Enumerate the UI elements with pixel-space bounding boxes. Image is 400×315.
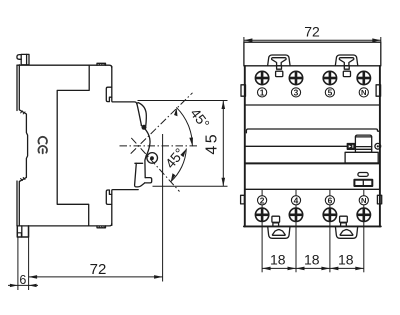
svg-text:18: 18 <box>304 252 320 268</box>
arc arrowheads <box>171 108 193 182</box>
clip B square <box>343 71 350 76</box>
18-dim extension lines <box>262 190 364 272</box>
lower right vertical <box>112 190 138 226</box>
face middle line <box>245 145 347 147</box>
terminal screws + numbers (drawn last for white fill over ext lines) <box>255 71 370 221</box>
bottom clip B <box>335 226 357 238</box>
top busbar clip B <box>335 55 358 66</box>
extension line top <box>138 100 228 102</box>
main body outline <box>244 66 246 227</box>
svg-text:72: 72 <box>90 261 107 278</box>
screw 4 <box>289 208 302 221</box>
screw 8 <box>357 208 370 221</box>
svg-text:1: 1 <box>260 87 265 97</box>
top DIN-clip tab <box>17 54 29 64</box>
svg-text:N: N <box>361 196 366 205</box>
number 2 <box>258 195 267 205</box>
dimension line 45 <box>222 101 224 187</box>
horizontal centerline <box>120 145 198 147</box>
top busbar clip A <box>268 55 291 66</box>
svg-text:4: 4 <box>294 195 299 205</box>
top edge <box>17 65 112 67</box>
bottom clip A <box>268 226 290 238</box>
screw 5 <box>323 71 336 84</box>
screw 1 <box>255 71 268 84</box>
number 6 <box>325 195 334 205</box>
top lip <box>97 63 106 65</box>
side tab bottom-left <box>241 195 245 204</box>
top strip <box>244 42 381 66</box>
svg-text:5: 5 <box>328 87 333 97</box>
svg-text:N: N <box>361 88 366 97</box>
number 1 <box>258 87 267 97</box>
lower mechanism circle <box>147 153 158 164</box>
screw 2 <box>255 208 268 221</box>
upper serration <box>21 111 25 114</box>
face plate top edge <box>246 129 379 133</box>
upper 45deg radial <box>131 93 193 154</box>
svg-text:6: 6 <box>328 195 333 205</box>
bottom clip B square+stem <box>340 216 348 222</box>
phase circle <box>375 143 381 149</box>
lower front piece <box>135 162 143 164</box>
number N (bottom) <box>359 196 368 205</box>
dimension line 72 <box>29 276 163 278</box>
housing bulge below lever <box>141 125 150 177</box>
clip B stem below <box>344 66 349 69</box>
svg-text:45: 45 <box>203 132 220 155</box>
face lower line <box>245 162 379 164</box>
lever base <box>345 152 378 163</box>
extension line x=162.6 <box>162 134 164 282</box>
CE mark <box>38 137 47 154</box>
toggle lever (up position, side) <box>137 103 142 125</box>
foot of lower piece <box>145 178 152 183</box>
inner contour of base block <box>57 65 89 226</box>
side tab bottom-right <box>377 195 381 204</box>
number N (top) <box>359 88 368 97</box>
svg-text:3: 3 <box>294 87 299 97</box>
lower serration <box>21 178 25 181</box>
screw 6 <box>323 208 336 221</box>
extension line x=28.6 <box>28 227 30 290</box>
label window <box>354 180 372 186</box>
upper right vertical <box>112 67 137 105</box>
clip A stem below <box>277 66 282 69</box>
lever pivot dot <box>142 125 147 130</box>
bottom edge <box>17 224 112 226</box>
svg-text:18: 18 <box>270 252 286 268</box>
number 5 <box>325 87 334 97</box>
lower 45deg radial <box>131 138 179 192</box>
number 4 <box>291 195 300 205</box>
lower 45 arc <box>171 149 187 182</box>
line above terminal row (bottom) <box>245 188 379 190</box>
extension line x=17.9 <box>17 238 19 291</box>
svg-text:18: 18 <box>338 252 354 268</box>
upper 45 arc <box>177 108 193 146</box>
screw 7 <box>357 71 370 84</box>
upper hook <box>106 87 112 101</box>
bottom DIN clip foot <box>17 226 28 237</box>
svg-text:6: 6 <box>19 273 26 287</box>
lever knob <box>355 135 371 152</box>
bottom clip A square+stem <box>272 216 280 222</box>
dimension line 18s <box>262 267 364 269</box>
side tab top-right <box>376 85 381 96</box>
test button pill <box>358 173 368 177</box>
dimension line 6 <box>8 284 38 286</box>
side tab top-left <box>241 85 246 96</box>
extension line bottom <box>153 185 228 187</box>
clip A square <box>276 71 283 76</box>
lower hook <box>106 190 112 204</box>
left wall inner line / DIN recess profile <box>19 65 27 226</box>
left wall outer line <box>16 65 18 226</box>
line under terminal row (top) <box>245 104 379 106</box>
dimension 72 (top) <box>244 37 381 42</box>
svg-text:72: 72 <box>304 24 320 40</box>
svg-text:2: 2 <box>260 195 265 205</box>
screw 3 <box>289 71 302 84</box>
bottom lip <box>97 226 106 228</box>
indicator window <box>347 144 354 150</box>
number 3 <box>291 87 300 97</box>
